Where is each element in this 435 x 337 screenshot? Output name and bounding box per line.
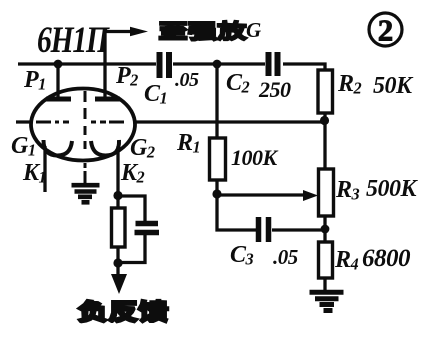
svg-text:2: 2: [378, 13, 394, 48]
